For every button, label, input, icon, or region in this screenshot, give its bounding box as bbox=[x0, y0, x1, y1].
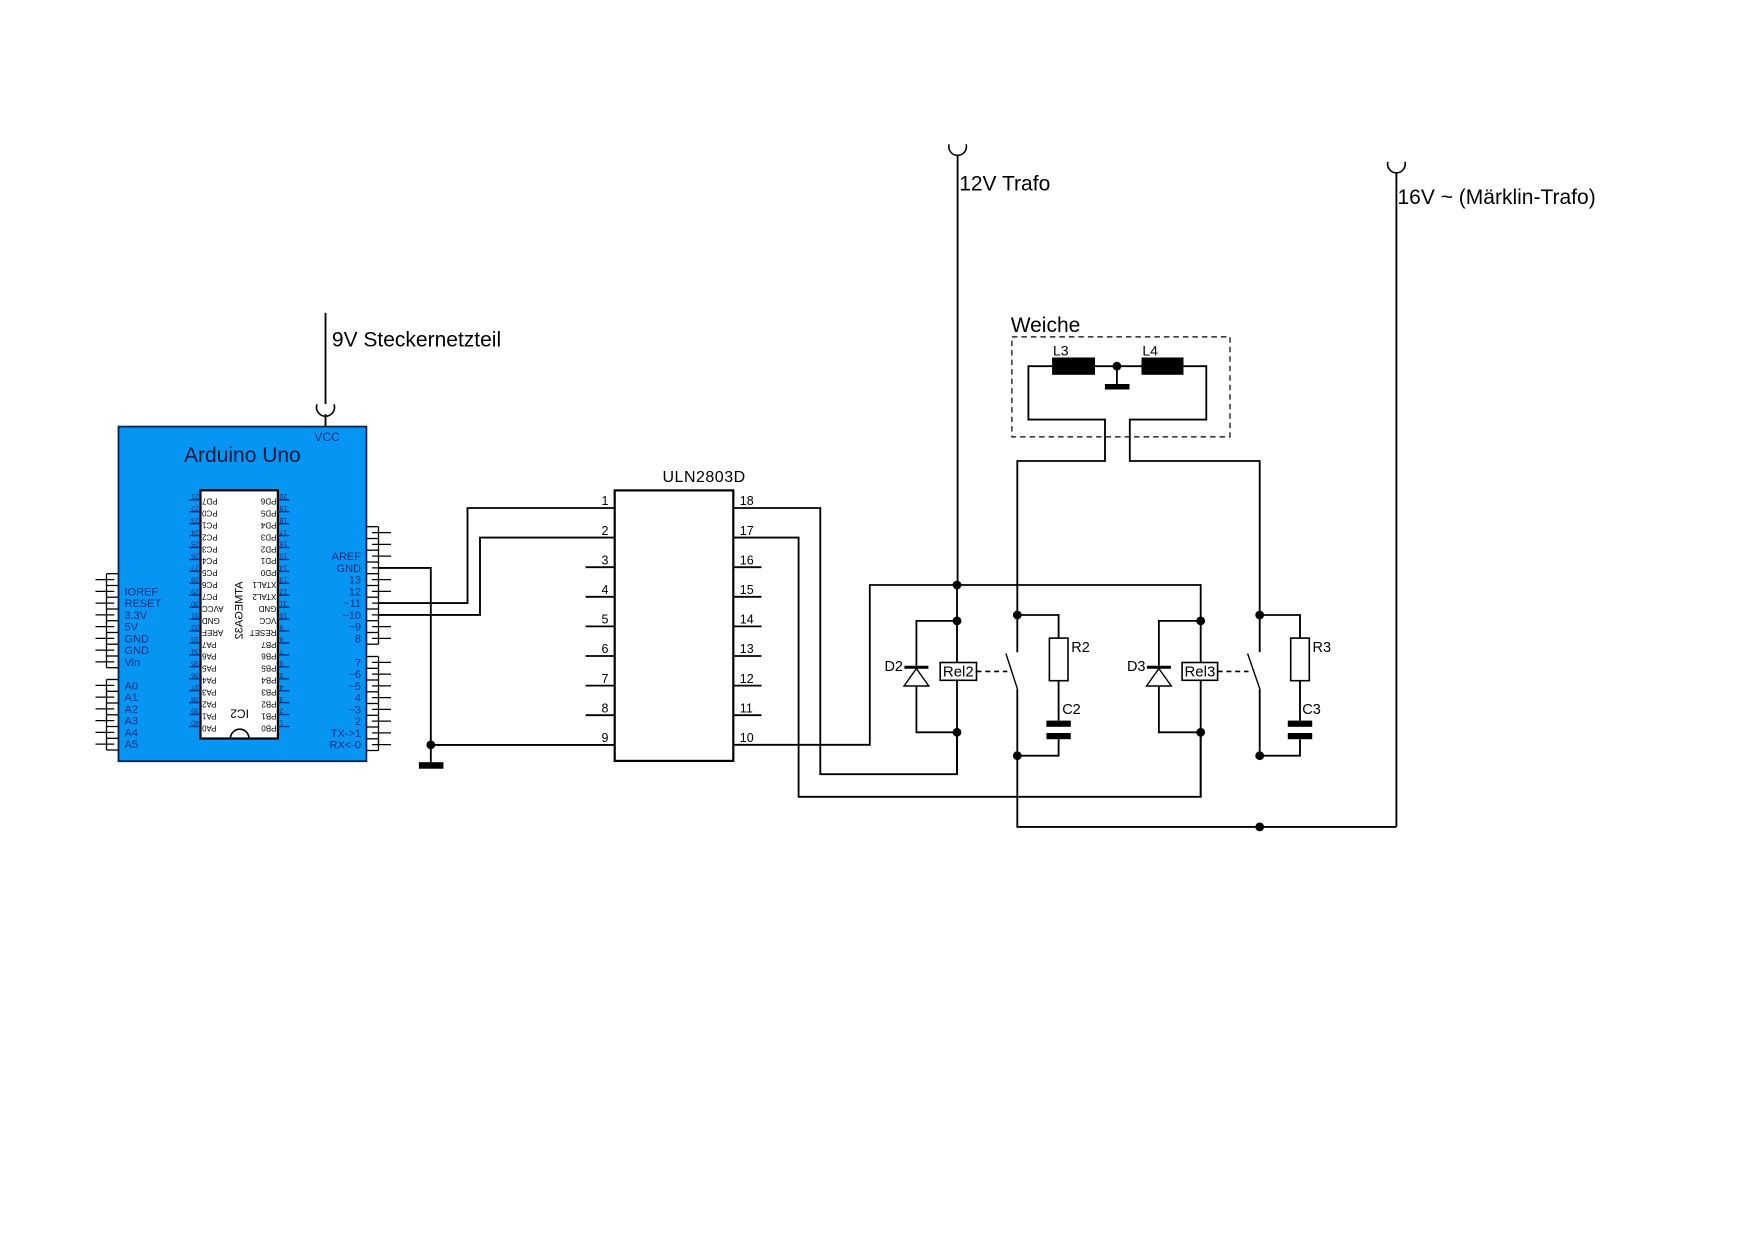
svg-text:2: 2 bbox=[602, 524, 609, 538]
svg-text:R2: R2 bbox=[1071, 640, 1090, 656]
svg-text:A5: A5 bbox=[125, 739, 138, 751]
svg-text:6: 6 bbox=[279, 659, 283, 666]
coil L4 bbox=[1142, 343, 1184, 375]
junction S2 to RC branch bbox=[1013, 611, 1022, 620]
dashed actuation link Rel3 bbox=[1218, 670, 1249, 672]
svg-text:XTAL1: XTAL1 bbox=[252, 580, 276, 589]
svg-text:1: 1 bbox=[279, 719, 283, 726]
svg-text:4: 4 bbox=[279, 683, 283, 690]
svg-text:19: 19 bbox=[279, 504, 287, 511]
svg-text:PB4: PB4 bbox=[261, 676, 277, 685]
dashed actuation link Rel2 bbox=[977, 670, 1008, 672]
connector analog header A0-A5 bbox=[96, 680, 138, 752]
svg-text:6: 6 bbox=[602, 642, 609, 656]
wire L3 left to switch S2 contact bbox=[1017, 366, 1105, 652]
svg-text:32: 32 bbox=[191, 623, 199, 630]
svg-text:13: 13 bbox=[279, 576, 287, 583]
svg-text:IOREF: IOREF bbox=[125, 586, 159, 598]
svg-text:31: 31 bbox=[191, 611, 199, 618]
svg-text:16: 16 bbox=[740, 553, 754, 567]
svg-text:2: 2 bbox=[279, 707, 283, 714]
wire ULN pin 17 to Rel3 coil bottom bbox=[733, 538, 1200, 797]
svg-text:18: 18 bbox=[279, 516, 287, 523]
svg-text:7: 7 bbox=[279, 647, 283, 654]
svg-text:27: 27 bbox=[191, 564, 199, 571]
svg-text:1: 1 bbox=[602, 494, 609, 508]
svg-text:3: 3 bbox=[279, 695, 283, 702]
svg-text:33: 33 bbox=[191, 635, 199, 642]
junction Rel2 coil bottom bbox=[953, 728, 962, 737]
svg-text:15: 15 bbox=[279, 552, 287, 559]
svg-text:38: 38 bbox=[191, 695, 199, 702]
svg-text:PD7: PD7 bbox=[201, 497, 217, 506]
svg-text:~3: ~3 bbox=[348, 704, 361, 716]
svg-text:PC7: PC7 bbox=[201, 592, 217, 601]
wire Rel3 coil rail bbox=[1200, 621, 1202, 797]
wire R3 to C3 bbox=[1299, 681, 1301, 721]
svg-text:8: 8 bbox=[279, 635, 283, 642]
relay coil Rel3 bbox=[1182, 663, 1218, 681]
junction S3 to RC branch bbox=[1255, 611, 1264, 620]
svg-text:10: 10 bbox=[740, 731, 754, 745]
svg-text:23: 23 bbox=[191, 516, 199, 523]
svg-text:C3: C3 bbox=[1302, 702, 1321, 718]
svg-text:~11: ~11 bbox=[343, 598, 361, 610]
svg-text:40: 40 bbox=[191, 719, 199, 726]
coil L3 bbox=[1052, 343, 1095, 375]
svg-text:14: 14 bbox=[279, 564, 287, 571]
svg-text:PD1: PD1 bbox=[260, 556, 276, 565]
svg-text:5: 5 bbox=[279, 671, 283, 678]
wire ULN pin 18 to Rel2 coil bottom bbox=[733, 508, 957, 774]
connector 16V Trafo terminal bbox=[1388, 162, 1406, 173]
svg-text:GND: GND bbox=[125, 645, 150, 657]
svg-text:ULN2803D: ULN2803D bbox=[663, 469, 746, 486]
wire 16V trafo down right side bbox=[1395, 172, 1397, 827]
svg-text:12V Trafo: 12V Trafo bbox=[959, 172, 1050, 195]
svg-text:9: 9 bbox=[602, 731, 609, 745]
svg-text:15: 15 bbox=[740, 583, 754, 597]
svg-text:GND: GND bbox=[258, 604, 276, 613]
relay coil Rel2 bbox=[940, 663, 976, 681]
svg-text:Vin: Vin bbox=[125, 657, 141, 669]
svg-text:A1: A1 bbox=[125, 692, 138, 704]
IC2 left pins 21-40 with stubs bbox=[189, 492, 224, 732]
svg-text:GND: GND bbox=[202, 616, 220, 625]
wire to R2 bbox=[1017, 615, 1058, 638]
center tap terminal bar bbox=[1105, 366, 1130, 389]
svg-text:PD6: PD6 bbox=[260, 497, 276, 506]
svg-text:D2: D2 bbox=[884, 659, 903, 675]
svg-text:24: 24 bbox=[191, 528, 199, 535]
svg-text:37: 37 bbox=[191, 683, 199, 690]
ULN2803D left pins 1-9 bbox=[586, 494, 615, 745]
svg-text:PA0: PA0 bbox=[201, 723, 216, 732]
svg-text:7: 7 bbox=[602, 672, 609, 686]
svg-text:PA7: PA7 bbox=[201, 640, 216, 649]
svg-text:9V Steckernetzteil: 9V Steckernetzteil bbox=[332, 328, 501, 351]
svg-text:PD0: PD0 bbox=[260, 568, 276, 577]
wire R2 to C2 bbox=[1058, 681, 1060, 721]
svg-text:16: 16 bbox=[279, 540, 287, 547]
svg-text:RX<-0: RX<-0 bbox=[330, 740, 362, 752]
svg-text:PD4: PD4 bbox=[260, 521, 276, 530]
junction center tap bbox=[1113, 362, 1122, 371]
svg-text:Rel2: Rel2 bbox=[943, 664, 974, 681]
svg-text:PC2: PC2 bbox=[201, 532, 217, 541]
svg-text:PA1: PA1 bbox=[201, 711, 216, 720]
IC2 right pins 20-1 with stubs bbox=[250, 492, 290, 732]
svg-text:A3: A3 bbox=[125, 716, 138, 728]
connector 12V Trafo terminal bbox=[949, 144, 967, 155]
svg-text:5: 5 bbox=[602, 613, 609, 627]
svg-text:5V: 5V bbox=[125, 622, 139, 634]
svg-text:8: 8 bbox=[602, 701, 609, 715]
ULN2803D right pins 18-10 bbox=[733, 494, 761, 745]
wire L4 right to switch S3 contact bbox=[1130, 366, 1260, 652]
svg-text:TX->1: TX->1 bbox=[331, 728, 361, 740]
wire Arduino pin ~11 to ULN pin 1 bbox=[379, 508, 615, 603]
wire C3 to S3 bottom bbox=[1260, 739, 1300, 756]
diode D2 flyback bbox=[904, 621, 957, 732]
capacitor C2 bbox=[1046, 721, 1070, 740]
svg-text:RESET: RESET bbox=[250, 628, 277, 637]
svg-text:R3: R3 bbox=[1313, 640, 1332, 656]
svg-text:AREF: AREF bbox=[202, 628, 223, 637]
svg-text:28: 28 bbox=[191, 576, 199, 583]
wire L3 to L4 center tap bbox=[1095, 365, 1142, 367]
driver IC ULN2803D body bbox=[615, 469, 746, 761]
junction 12V rail node bbox=[953, 581, 962, 590]
svg-text:L3: L3 bbox=[1053, 343, 1069, 359]
svg-text:4: 4 bbox=[355, 693, 361, 705]
svg-text:14: 14 bbox=[740, 613, 754, 627]
svg-text:22: 22 bbox=[191, 504, 199, 511]
switch S3 bbox=[1248, 654, 1260, 756]
svg-text:21: 21 bbox=[191, 492, 199, 499]
svg-text:XTAL2: XTAL2 bbox=[252, 592, 276, 601]
Weiche dashed enclosure bbox=[1012, 337, 1230, 437]
svg-text:PC4: PC4 bbox=[201, 556, 217, 565]
svg-text:ATMEGA32: ATMEGA32 bbox=[234, 582, 246, 640]
svg-text:Weiche: Weiche bbox=[1011, 314, 1081, 337]
junction Rel2 coil top bbox=[953, 617, 962, 626]
svg-text:2: 2 bbox=[355, 716, 361, 728]
junction Rel3 coil bottom bbox=[1196, 728, 1205, 737]
svg-text:~5: ~5 bbox=[348, 681, 361, 693]
svg-text:AREF: AREF bbox=[332, 551, 362, 563]
wire Arduino pin ~10 to ULN pin 2 bbox=[379, 538, 615, 615]
svg-text:29: 29 bbox=[191, 587, 199, 594]
svg-text:VCC: VCC bbox=[314, 430, 340, 444]
connector digital header D0-D7 bbox=[330, 657, 392, 752]
svg-text:26: 26 bbox=[191, 552, 199, 559]
svg-text:AVCC: AVCC bbox=[202, 604, 224, 613]
svg-text:PB0: PB0 bbox=[261, 723, 277, 732]
svg-text:Rel3: Rel3 bbox=[1184, 664, 1215, 681]
resistor R3 bbox=[1291, 638, 1310, 681]
wire to R3 bbox=[1260, 615, 1300, 638]
svg-text:PC6: PC6 bbox=[201, 580, 217, 589]
svg-text:PC1: PC1 bbox=[201, 521, 217, 530]
svg-text:4: 4 bbox=[602, 583, 609, 597]
svg-text:20: 20 bbox=[279, 492, 287, 499]
svg-text:~10: ~10 bbox=[342, 610, 361, 622]
svg-text:PB6: PB6 bbox=[261, 652, 277, 661]
svg-text:36: 36 bbox=[191, 671, 199, 678]
svg-text:PB3: PB3 bbox=[261, 688, 277, 697]
svg-text:PA2: PA2 bbox=[201, 699, 216, 708]
microcontroller IC2 ATMEGA32 body bbox=[201, 490, 278, 738]
svg-text:PB7: PB7 bbox=[261, 640, 277, 649]
svg-text:16V ~ (Märklin-Trafo): 16V ~ (Märklin-Trafo) bbox=[1398, 186, 1596, 209]
svg-text:GND: GND bbox=[337, 563, 362, 575]
svg-text:PA4: PA4 bbox=[201, 676, 216, 685]
svg-text:~6: ~6 bbox=[348, 669, 361, 681]
svg-text:PB5: PB5 bbox=[261, 664, 277, 673]
capacitor C3 bbox=[1288, 721, 1312, 740]
svg-text:17: 17 bbox=[279, 528, 287, 535]
svg-text:10: 10 bbox=[279, 611, 287, 618]
svg-text:PD2: PD2 bbox=[260, 544, 276, 553]
svg-text:12: 12 bbox=[349, 586, 361, 598]
svg-text:12: 12 bbox=[279, 587, 287, 594]
svg-text:PD3: PD3 bbox=[260, 532, 276, 541]
diode D3 flyback bbox=[1147, 621, 1201, 732]
svg-text:L4: L4 bbox=[1142, 343, 1158, 359]
svg-text:34: 34 bbox=[191, 647, 199, 654]
svg-text:9: 9 bbox=[279, 623, 283, 630]
svg-text:25: 25 bbox=[191, 540, 199, 547]
svg-text:11: 11 bbox=[740, 701, 753, 715]
svg-text:A4: A4 bbox=[125, 727, 138, 739]
svg-text:D3: D3 bbox=[1127, 659, 1146, 675]
wire 12V trafo down to relay rail bbox=[957, 155, 959, 585]
svg-text:A2: A2 bbox=[125, 704, 138, 716]
svg-text:39: 39 bbox=[191, 707, 199, 714]
connector 9V plug symbol bbox=[317, 313, 335, 427]
svg-text:PB1: PB1 bbox=[261, 711, 277, 720]
svg-text:RESET: RESET bbox=[125, 598, 162, 610]
svg-text:Arduino Uno: Arduino Uno bbox=[184, 444, 301, 467]
wire bottom return to 16V bbox=[1017, 756, 1396, 827]
ground symbol bbox=[419, 745, 444, 769]
svg-text:PB2: PB2 bbox=[261, 699, 277, 708]
svg-text:35: 35 bbox=[191, 659, 199, 666]
svg-text:PA5: PA5 bbox=[201, 664, 216, 673]
junction S3 bottom bbox=[1255, 751, 1264, 760]
svg-text:VCC: VCC bbox=[259, 616, 276, 625]
Arduino Uno board module bbox=[119, 427, 367, 762]
svg-text:PA3: PA3 bbox=[201, 688, 216, 697]
junction S2 bottom bbox=[1013, 751, 1022, 760]
svg-text:~9: ~9 bbox=[348, 622, 361, 634]
junction bottom return at switch S3 bbox=[1255, 823, 1264, 832]
svg-text:17: 17 bbox=[740, 524, 754, 538]
svg-text:11: 11 bbox=[279, 599, 286, 606]
svg-text:PC0: PC0 bbox=[201, 509, 217, 518]
resistor R2 bbox=[1049, 638, 1068, 681]
svg-text:A0: A0 bbox=[125, 680, 138, 692]
svg-text:PD5: PD5 bbox=[260, 509, 276, 518]
junction GND node bbox=[426, 741, 435, 750]
connector digital header D8-D13/AREF bbox=[332, 527, 391, 646]
svg-text:3.3V: 3.3V bbox=[125, 610, 148, 622]
svg-text:IC2: IC2 bbox=[230, 707, 249, 721]
svg-text:30: 30 bbox=[191, 599, 199, 606]
wire C2 to S2 bottom bbox=[1017, 739, 1058, 756]
svg-text:GND: GND bbox=[125, 633, 150, 645]
svg-text:8: 8 bbox=[355, 633, 361, 645]
svg-text:PA6: PA6 bbox=[201, 652, 216, 661]
switch S2 bbox=[1006, 654, 1018, 756]
svg-text:18: 18 bbox=[740, 494, 754, 508]
svg-text:PC5: PC5 bbox=[201, 568, 217, 577]
wire Arduino GND to ULN pin 9 bbox=[379, 568, 431, 745]
svg-text:13: 13 bbox=[349, 575, 361, 587]
svg-text:3: 3 bbox=[602, 553, 609, 567]
svg-text:12: 12 bbox=[740, 672, 754, 686]
connector power header bbox=[96, 574, 162, 669]
wire Rel2 coil rail bbox=[956, 585, 958, 774]
svg-text:7: 7 bbox=[355, 657, 361, 669]
svg-text:PC3: PC3 bbox=[201, 544, 217, 553]
junction Rel3 coil top bbox=[1196, 617, 1205, 626]
svg-text:C2: C2 bbox=[1062, 702, 1081, 718]
svg-text:13: 13 bbox=[740, 642, 754, 656]
wire ULN pin 10 to +12V rail and relay tops bbox=[733, 585, 1200, 745]
